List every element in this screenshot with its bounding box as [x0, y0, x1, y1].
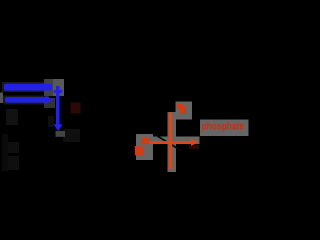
red vertical bond	[169, 113, 172, 170]
label box above red cross	[176, 102, 193, 120]
stem glow	[59, 87, 61, 124]
dark red H label	[71, 103, 81, 114]
blue arrow stem	[56, 86, 59, 125]
red arrowhead right	[191, 138, 198, 146]
blue arrowhead right (end of bar 2)	[46, 95, 54, 104]
halo around blue bar 1	[2, 82, 54, 92]
blue bar 2 (bottom, arrow shaft)	[5, 97, 46, 103]
label box behind blue arrow end of bar2	[44, 98, 55, 108]
label strip along horizontal red bond	[153, 137, 200, 145]
label box bottom-left 1 (faint)	[8, 142, 19, 153]
blue bar 1 (top)	[4, 84, 52, 91]
label box at right end of blue bars (bright part)	[53, 79, 64, 96]
label strip along vertical red bond	[168, 112, 177, 172]
red H left glyph	[135, 146, 145, 155]
label box at right end of blue bars (dark part)	[44, 79, 53, 96]
blue arrow crossbar	[54, 90, 63, 93]
red O top glyph	[177, 103, 183, 109]
halo around blue bar 2	[3, 96, 49, 105]
label box left of red cross	[136, 134, 153, 160]
faint box left of arrow stem	[48, 116, 54, 127]
label box right (red text)	[200, 120, 249, 137]
label box below-left (faint)	[6, 109, 18, 125]
black diagonal bond through center	[154, 134, 181, 151]
blue arrow head (down)	[54, 124, 63, 131]
faint left column	[2, 134, 8, 171]
faint red smudge below arrowhead	[189, 145, 199, 149]
label box left edge	[0, 93, 3, 104]
label box bottom-left 2 (faint)	[8, 156, 19, 170]
red horizontal bond	[149, 141, 191, 144]
red O left glyph	[142, 138, 150, 145]
label box below blue arrow	[56, 131, 66, 137]
label box mid (faint)	[63, 129, 80, 142]
svg-text:phosphate: phosphate	[202, 121, 245, 132]
